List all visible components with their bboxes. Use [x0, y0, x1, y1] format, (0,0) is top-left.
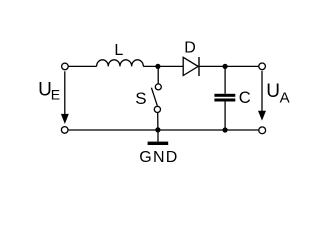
inductor L	[97, 60, 144, 67]
wire: bottom rail	[68, 129, 259, 131]
node: junction dot capacitor bottom	[223, 127, 228, 132]
terminal: output bottom	[259, 127, 266, 134]
voltage arrow U_A	[258, 71, 266, 121]
svg-text:E: E	[51, 87, 60, 103]
svg-text:GND: GND	[139, 149, 178, 166]
svg-text:L: L	[114, 42, 123, 59]
terminal: input bottom	[61, 127, 68, 134]
svg-text:C: C	[239, 88, 251, 107]
diode D	[183, 57, 199, 76]
svg-text:S: S	[135, 89, 146, 108]
node: junction dot at inductor/diode/switch	[155, 64, 160, 69]
svg-text:D: D	[184, 40, 196, 57]
wire: inductor to diode anode	[143, 65, 183, 67]
wire: top rail left segment (input node to inductor)	[68, 65, 96, 67]
voltage arrow U_E	[61, 71, 69, 124]
node: junction dot switch bottom	[155, 127, 160, 132]
switch S	[151, 66, 161, 129]
wire: diode cathode to output node	[199, 65, 259, 67]
capacitor C	[214, 66, 235, 130]
svg-text:U: U	[266, 81, 280, 102]
terminal: input top	[62, 63, 69, 70]
svg-text:A: A	[280, 90, 290, 107]
terminal: output top	[259, 63, 266, 70]
node: junction dot at capacitor top	[223, 64, 228, 69]
ground	[148, 130, 169, 145]
